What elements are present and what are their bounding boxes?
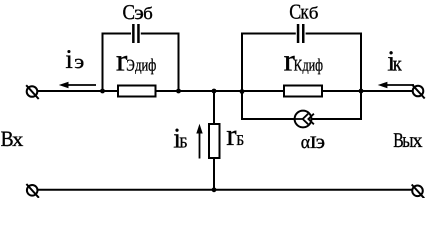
svg-text:э: э (316, 131, 325, 153)
svg-text:К: К (294, 56, 303, 75)
svg-text:С: С (123, 0, 136, 24)
svg-text:Б: Б (236, 133, 244, 149)
svg-text:к: к (393, 51, 403, 75)
svg-text:диф: диф (135, 56, 156, 75)
svg-text:С: С (289, 0, 301, 24)
svg-text:б: б (309, 4, 319, 23)
svg-text:Э: Э (126, 56, 135, 75)
svg-text:i: i (65, 44, 73, 74)
svg-text:диф: диф (303, 56, 324, 75)
svg-text:б: б (143, 4, 153, 23)
svg-text:Б: Б (179, 135, 187, 152)
svg-text:х: х (12, 129, 23, 151)
svg-text:r: r (226, 118, 236, 152)
svg-text:э: э (74, 52, 84, 73)
svg-text:х: х (412, 130, 423, 152)
